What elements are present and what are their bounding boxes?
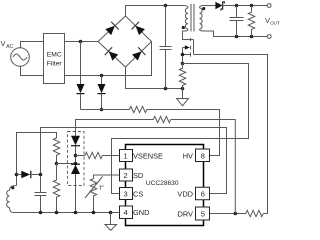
transformer core xyxy=(191,4,194,32)
op-amp U1 UCC28630 body xyxy=(126,145,204,226)
node Q1 source junction xyxy=(181,53,185,57)
AC source VAC xyxy=(11,48,30,67)
svg-text:VDD: VDD xyxy=(177,190,193,199)
wire VAC bottom to EMC filter xyxy=(21,66,44,75)
wire zener middle segment xyxy=(75,146,77,164)
ground power xyxy=(177,89,189,106)
wire EMC top output to bridge left vertex xyxy=(65,41,99,43)
wire aux top to diode DA xyxy=(16,175,18,186)
terminal VOUT plus xyxy=(267,4,271,8)
wire output diode to VOUT plus terminal xyxy=(223,5,268,7)
wire EMC bottom output to bridge right vertex xyxy=(65,42,152,76)
transistor Q1 MOSFET xyxy=(183,38,194,64)
label VOUT xyxy=(265,16,280,25)
wire zener clamp top line xyxy=(76,120,154,136)
node load resistor top xyxy=(250,4,254,8)
wire HV line left xyxy=(81,109,130,111)
node DRV junction xyxy=(234,212,238,216)
svg-text:OUT: OUT xyxy=(270,20,280,25)
node bulk cap top xyxy=(164,4,168,8)
wire gate line to DRV resistor xyxy=(194,55,268,214)
zener upper xyxy=(71,136,80,146)
thermistor NTC xyxy=(85,175,120,213)
resistor RS2 VSENSE xyxy=(85,152,102,158)
svg-text:4: 4 xyxy=(124,208,128,217)
wire divider node to zener middle xyxy=(57,163,76,165)
capacitor bulk xyxy=(160,6,172,89)
svg-text:UCC28630: UCC28630 xyxy=(146,180,179,187)
aux winding phase dot xyxy=(11,186,14,189)
optional clamp dashed box xyxy=(68,132,85,186)
transformer secondary phase dot xyxy=(202,7,205,10)
bridge diode lower-right xyxy=(131,47,145,61)
node DA anode junction xyxy=(15,173,19,177)
wire bridge top vertex to top rail xyxy=(126,6,184,17)
svg-text:1: 1 xyxy=(124,151,128,160)
svg-text:VSENSE: VSENSE xyxy=(133,151,163,160)
pin 6 box xyxy=(196,187,210,200)
diode D1 line sense xyxy=(77,42,85,110)
diode DA aux rectifier xyxy=(17,171,41,179)
resistor RG gate drive xyxy=(246,210,263,216)
bridge diode upper-right xyxy=(132,22,146,36)
resistor RS4 divider lower xyxy=(53,164,59,213)
svg-text:GND: GND xyxy=(133,208,149,217)
svg-text:V: V xyxy=(1,39,6,48)
wire VDD line xyxy=(41,128,227,194)
capacitor CVDD xyxy=(35,193,47,213)
resistor load xyxy=(248,6,254,37)
transformer T1 primary winding xyxy=(183,6,194,40)
resistor RS1 HV xyxy=(130,106,147,112)
node bulk cap bottom xyxy=(164,87,168,91)
wire bridge bottom vertex to primary ground rail xyxy=(126,67,183,89)
node sense resistor bottom xyxy=(181,87,185,91)
pin 5 box xyxy=(196,207,210,220)
wire aux top line to divider xyxy=(17,133,57,175)
terminal VOUT minus xyxy=(267,35,271,39)
svg-text:DRV: DRV xyxy=(178,210,194,219)
transformer T1 secondary winding xyxy=(200,6,204,32)
node rail CVDD xyxy=(39,211,43,215)
zener lower xyxy=(71,164,80,212)
svg-text:t°: t° xyxy=(100,184,105,192)
svg-text:2: 2 xyxy=(124,171,128,180)
node rail NTC xyxy=(92,211,96,215)
svg-text:CS: CS xyxy=(133,189,143,198)
wire zener line to DRV node xyxy=(171,120,236,214)
wire CS sense line xyxy=(112,64,249,194)
pin 8 box xyxy=(196,149,210,162)
capacitor output xyxy=(230,6,244,37)
aux winding xyxy=(7,186,17,213)
node junction D2 tap xyxy=(100,74,104,78)
bridge diode upper-left xyxy=(104,22,118,36)
pin 3 box xyxy=(120,188,133,200)
transistor Q1 body arrow xyxy=(185,45,190,49)
node junction D1 tap xyxy=(79,40,83,44)
transformer primary phase dot xyxy=(182,26,185,29)
diode output schottky xyxy=(215,2,224,11)
node zener to divider xyxy=(74,162,78,166)
resistor RS3 divider upper xyxy=(53,138,59,164)
svg-text:HV: HV xyxy=(183,151,193,160)
svg-text:Filter: Filter xyxy=(47,61,63,68)
svg-text:8: 8 xyxy=(201,151,205,160)
wire VSENSE resistor to pin 1 xyxy=(102,155,119,157)
bridge rectifier diamond xyxy=(98,16,152,67)
wire VAC top to EMC filter xyxy=(21,42,44,48)
node D2 HV line junction xyxy=(100,108,104,112)
wire HV line right to pin 8 xyxy=(147,110,220,156)
wire DRV to gate resistor xyxy=(210,213,246,215)
ground logic symbol xyxy=(105,213,117,231)
svg-text:AC: AC xyxy=(6,44,13,50)
EMC filter block xyxy=(44,34,65,84)
node divider junction xyxy=(55,162,59,166)
node output cap bottom xyxy=(235,35,239,39)
node CS tap junction xyxy=(181,62,185,66)
node rail ground stub xyxy=(109,211,113,215)
node rail zener xyxy=(74,211,78,215)
node VDD cap top junction xyxy=(39,173,43,177)
node load resistor bottom xyxy=(250,35,254,39)
svg-text:6: 6 xyxy=(201,190,205,199)
svg-text:3: 3 xyxy=(124,189,128,198)
pin 1 box xyxy=(120,150,133,162)
node rail RS4 xyxy=(55,211,59,215)
svg-text:SD: SD xyxy=(133,171,143,180)
svg-text:EMC: EMC xyxy=(47,52,62,59)
node zener to VSENSE xyxy=(74,154,78,158)
wire secondary bottom to VOUT minus terminal xyxy=(203,31,267,37)
wire secondary top to output diode xyxy=(203,5,215,7)
svg-text:5: 5 xyxy=(201,210,205,219)
pin 4 box xyxy=(120,206,133,219)
pin 2 box xyxy=(120,169,133,181)
ground rail logic xyxy=(14,212,120,214)
label VAC xyxy=(1,39,14,50)
resistor RCS current sense xyxy=(179,64,185,89)
bridge diode lower-left xyxy=(105,47,119,61)
node output cap top xyxy=(235,4,239,8)
resistor on zener line xyxy=(153,116,170,122)
wire zener middle to VSENSE resistor xyxy=(76,155,86,157)
diode D2 line sense xyxy=(98,76,106,110)
